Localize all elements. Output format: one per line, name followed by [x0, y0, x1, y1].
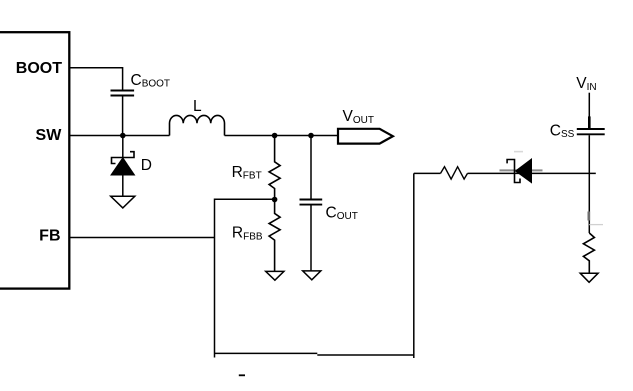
- node SW junction dot: [120, 133, 126, 139]
- resistor R_FBB: [269, 200, 280, 272]
- wire right riser: [413, 173, 415, 358]
- svg-text:BOOT: BOOT: [16, 60, 62, 77]
- svg-text:SW: SW: [36, 127, 63, 144]
- faint gray tick: [589, 224, 603, 226]
- node C_OUT top dot: [308, 133, 314, 139]
- resistor (bottom right, unlabeled): [583, 233, 594, 273]
- stray dash mark: [239, 374, 245, 376]
- wire bottom right segment: [317, 354, 414, 356]
- gray ghost wire through diode: [500, 169, 543, 171]
- wire C_OUT bottom lead: [310, 206, 312, 271]
- wire diode to ground: [122, 175, 124, 196]
- svg-text:RFBT: RFBT: [232, 164, 262, 182]
- wire FB riser and corner to divider: [215, 199, 275, 357]
- faint smudge above diode: [514, 151, 523, 153]
- svg-text:VOUT: VOUT: [343, 108, 374, 126]
- wire V_IN to C_SS: [588, 93, 590, 129]
- svg-text:VIN: VIN: [576, 75, 596, 93]
- diode D (schottky, cathode up): [111, 152, 135, 175]
- thick stub above C_SS plate: [588, 116, 591, 128]
- svg-text:CBOOT: CBOOT: [131, 72, 171, 90]
- wire bottom left segment: [215, 352, 318, 354]
- wire top right horizontal: [414, 172, 441, 174]
- ground (C_OUT): [303, 271, 321, 280]
- resistor R_FBT: [269, 136, 280, 200]
- wire C_SS to junction and down to resistor: [588, 135, 590, 233]
- svg-text:CSS: CSS: [550, 122, 575, 140]
- wire SW pin to inductor: [69, 135, 169, 137]
- svg-text:COUT: COUT: [326, 204, 358, 222]
- wire BOOT pin to C_BOOT: [69, 68, 122, 90]
- wire FB pin: [69, 237, 214, 239]
- output flag V_OUT: [338, 129, 393, 144]
- svg-text:FB: FB: [39, 228, 60, 245]
- ground (diode D): [111, 196, 135, 208]
- wire C_BOOT to SW node: [122, 96, 124, 135]
- diode (schottky, pointing left): [507, 159, 531, 183]
- node R_FBT top dot: [272, 133, 278, 139]
- wire SW node to diode D: [122, 136, 124, 158]
- wire resistor to diode and on to C_SS node: [468, 172, 596, 174]
- svg-text:RFBB: RFBB: [232, 225, 263, 243]
- svg-text:L: L: [193, 98, 202, 115]
- inductor L: [170, 115, 225, 135]
- ground (bottom right): [580, 273, 598, 282]
- capacitor C_SS: [577, 129, 605, 134]
- ground (R_FBB): [266, 271, 284, 280]
- node FB divider dot: [272, 197, 278, 203]
- wire inductor to V_OUT: [225, 135, 339, 137]
- svg-text:D: D: [141, 157, 152, 174]
- IC box U1: [0, 32, 69, 288]
- capacitor C_BOOT: [111, 91, 135, 96]
- resistor (horizontal, unlabeled): [441, 167, 468, 179]
- wire C_OUT top lead: [310, 136, 312, 199]
- gray stub on vertical: [588, 212, 591, 221]
- capacitor C_OUT: [300, 200, 323, 205]
